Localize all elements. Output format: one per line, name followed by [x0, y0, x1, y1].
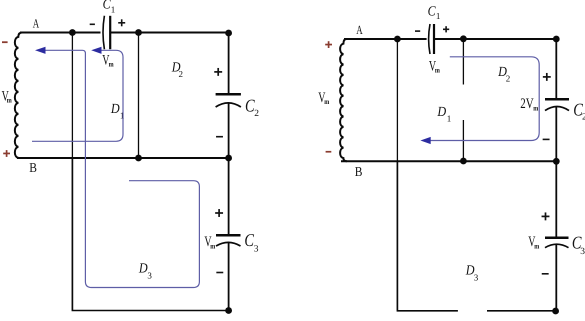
minus label of C2 (left) — [216, 136, 223, 138]
wire C3 branch upper (left) — [228, 158, 230, 235]
polarity plus at winding bottom (left) — [3, 150, 10, 157]
capacitor C3 (right) — [545, 238, 569, 248]
wire top (right): node A to C2 branch with C1 gap — [344, 38, 556, 40]
plus label of C2 (left) — [214, 71, 222, 73]
wire bottom (right): node B rail — [341, 160, 556, 162]
svg-text:m: m — [109, 60, 115, 69]
capacitor C2 (right) — [545, 99, 569, 110]
svg-text:B: B — [355, 164, 363, 179]
wire C2 branch lower (left) — [228, 103, 230, 158]
junction top of C2 branch (right) — [553, 36, 560, 43]
junction top of D1 branch (left) — [135, 29, 142, 36]
svg-text:m: m — [533, 103, 539, 112]
polarity minus at winding bottom (right) — [326, 151, 332, 153]
svg-text:D: D — [437, 105, 447, 120]
junction top of D1 branch (right) — [460, 35, 467, 42]
svg-text:1: 1 — [120, 110, 125, 120]
svg-text:2V: 2V — [520, 96, 534, 112]
svg-text:A: A — [33, 17, 39, 31]
svg-text:3: 3 — [254, 244, 259, 254]
svg-text:1: 1 — [447, 114, 452, 124]
svg-text:m: m — [435, 66, 441, 75]
svg-text:D: D — [138, 262, 148, 277]
junction at node A branch x=72 (left) — [69, 29, 76, 36]
capacitor C1 (left) — [103, 16, 110, 49]
plus label of C3 (right) — [542, 216, 550, 218]
plus label at C1 right plate (right) — [443, 29, 449, 31]
winding A-B (right transformer secondary) — [340, 39, 347, 161]
junction bottom of C3 branch (left) — [225, 307, 232, 314]
arrowhead of D1 loop (left) — [91, 47, 101, 54]
junction bottom of C3 branch (right) — [552, 308, 559, 315]
plus label of C3 (left) — [215, 212, 223, 214]
svg-text:1: 1 — [111, 5, 116, 15]
junction bottom of D1 branch (left) — [135, 155, 142, 162]
svg-text:D: D — [110, 102, 120, 117]
arrowhead of D2 loop (right) — [420, 137, 430, 144]
svg-text:3: 3 — [147, 270, 152, 280]
svg-text:m: m — [324, 97, 330, 106]
wire bottom return rail left segment with D3 gap (right) — [397, 161, 458, 310]
diode branch D1 open upper stub (right) — [462, 39, 464, 85]
minus label of C3 (left) — [216, 272, 223, 274]
plus label of C2 (right) — [543, 76, 551, 78]
svg-text:3: 3 — [580, 247, 585, 257]
svg-text:2: 2 — [506, 74, 511, 84]
junction top of C2 branch (left) — [225, 30, 232, 37]
polarity plus at winding top (right) — [325, 41, 332, 48]
minus label at C1 left plate (left) — [90, 24, 95, 26]
capacitor C2 (left) — [216, 94, 241, 107]
svg-text:m: m — [7, 95, 13, 104]
diode branch D1 open lower stub (right) — [462, 120, 464, 161]
svg-text:A: A — [356, 23, 362, 37]
polarity minus at winding top (left) — [2, 41, 8, 43]
wire bottom (left): node B rail — [17, 157, 229, 159]
svg-text:2: 2 — [179, 69, 184, 79]
wire C2 branch upper (right) — [555, 39, 557, 99]
svg-text:3: 3 — [474, 272, 479, 282]
svg-text:m: m — [210, 241, 216, 250]
junction at node A branch x=397 (right) — [394, 36, 401, 43]
diode branch D1 conducting wire (left) — [138, 33, 140, 159]
wire C2 branch upper (left) — [228, 33, 230, 94]
wire C3 branch lower (right) — [555, 244, 557, 311]
wire C3 branch upper (right) — [555, 161, 557, 237]
arrowhead of D3 loop (left) — [35, 47, 46, 54]
svg-text:m: m — [534, 241, 540, 250]
wire bottom return rail (left) — [72, 158, 228, 311]
svg-text:C: C — [428, 4, 437, 19]
wire vertical from node A to bottom rail (right) — [396, 39, 398, 311]
capacitor C3 (left) — [216, 235, 241, 246]
svg-text:B: B — [29, 160, 37, 175]
junction bottom of C2 branch (left) — [225, 155, 232, 162]
wire bottom return rail right segment (right) — [487, 310, 555, 312]
junction bottom of D1 branch (right) — [460, 158, 467, 165]
current loop through D2 (right, blue) — [430, 57, 540, 141]
winding A-B (left transformer secondary) — [15, 33, 22, 159]
current loop through D3 (left, blue) — [44, 50, 199, 287]
current loop through D1 (left, blue) — [32, 50, 123, 141]
wire vertical from node A to bottom rail (left) — [71, 33, 73, 311]
svg-text:1: 1 — [436, 11, 441, 21]
capacitor C1 (right) — [429, 24, 434, 54]
wire C2 branch lower (right) — [555, 107, 557, 162]
wire top (left): node A to C2 branch with C1 gap — [20, 32, 229, 34]
minus label at C1 left plate (right) — [415, 30, 420, 32]
junction bottom of C2 branch (right) — [553, 158, 560, 165]
minus label of C3 (right) — [542, 273, 549, 275]
svg-text:2: 2 — [254, 109, 259, 119]
minus label of C2 (right) — [543, 139, 550, 141]
plus label at C1 right plate (left) — [118, 22, 125, 24]
wire C3 branch lower (left) — [228, 242, 230, 310]
